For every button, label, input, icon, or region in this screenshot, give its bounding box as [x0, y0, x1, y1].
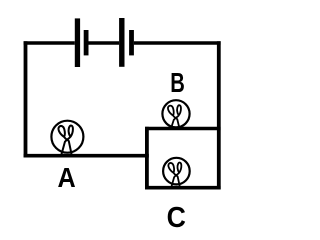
wire: top left segment	[24, 41, 75, 45]
svg-text:C: C	[167, 201, 186, 233]
wire: parallel box left vertical	[145, 127, 149, 190]
wire: parallel box bottom rail through bulb C	[145, 186, 221, 190]
wire: between battery cells	[89, 41, 120, 45]
wire: left vertical	[24, 41, 28, 157]
wire: parallel box top rail through bulb B	[145, 127, 221, 131]
wire: right vertical	[217, 41, 221, 189]
wire: bottom left rail through bulb A	[24, 154, 149, 158]
svg-text:B: B	[170, 68, 185, 99]
svg-text:A: A	[58, 162, 76, 194]
battery cell 2 short plate	[129, 30, 134, 55]
lamp C (bulb)	[163, 158, 190, 189]
battery cell 2 long plate	[119, 18, 124, 67]
battery cell 1 short plate	[84, 30, 89, 55]
wire: top right segment	[134, 41, 221, 45]
battery cell 1 long plate	[75, 18, 80, 67]
lamp B (bulb)	[162, 100, 189, 130]
lamp A (bulb)	[51, 121, 83, 155]
